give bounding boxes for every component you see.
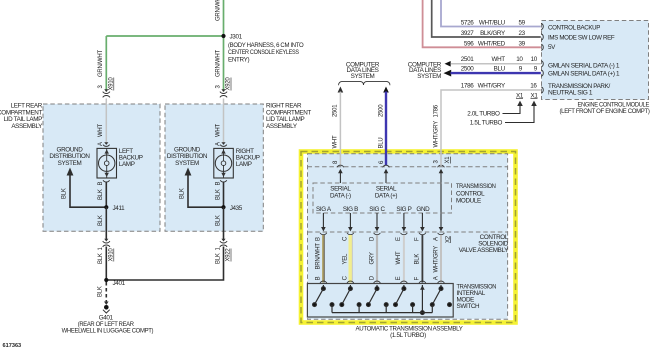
left rear compartment lid tail lamp assembly box (43, 104, 160, 231)
svg-text:LAMP: LAMP (119, 161, 135, 168)
pin arrow 6 (384, 169, 389, 173)
svg-text:SYSTEM: SYSTEM (351, 73, 375, 80)
svg-text:3927: 3927 (461, 30, 474, 37)
wire WHT/RED 596 (423, 0, 541, 47)
arrow left 2500 (444, 70, 452, 77)
wire BLK to ground distribution right (188, 175, 224, 207)
wire pin8 to TCM (339, 172, 341, 183)
svg-text:1.5L TURBO: 1.5L TURBO (470, 120, 503, 127)
transmission control module box (313, 183, 452, 213)
svg-text:GRY: GRY (369, 252, 375, 264)
svg-text:CONTROL BACKUP: CONTROL BACKUP (548, 24, 600, 31)
ground distribution arrow left (67, 168, 74, 176)
left backup lamp (97, 148, 117, 178)
svg-text:BLK: BLK (216, 253, 222, 264)
ECM pin arc row5 (541, 70, 543, 76)
wire WHT/BLU 5726 (441, 0, 541, 27)
wire BLK/GRY 3927 (432, 0, 541, 37)
svg-text:DATA (+): DATA (+) (375, 193, 398, 200)
wire BLK X910 to J401 (105, 247, 107, 281)
svg-text:DATA (-): DATA (-) (330, 193, 351, 200)
svg-text:F: F (415, 237, 421, 241)
switch B (322, 285, 324, 289)
svg-text:39: 39 (518, 40, 525, 47)
svg-text:5V: 5V (548, 44, 556, 51)
contact 3 (384, 303, 388, 307)
svg-text:SERIAL: SERIAL (330, 185, 351, 192)
svg-text:23: 23 (518, 30, 525, 37)
lamp pin A connector right (221, 142, 225, 145)
wire WHT/GRY 1786 row (441, 90, 541, 166)
pin3 wire arrow at X2 (439, 227, 444, 232)
wire SIG C to solenoid connector (376, 213, 378, 228)
svg-text:BLK: BLK (98, 189, 104, 200)
ECM pin arc row1 (541, 23, 543, 29)
svg-text:X1: X1 (445, 156, 451, 164)
svg-text:X2: X2 (445, 235, 451, 243)
ECM pin arc row4 (541, 61, 543, 67)
svg-text:596: 596 (464, 40, 474, 47)
arrow up BLU 2500 (383, 87, 389, 93)
wire GRY solenoid to mode switch (376, 235, 378, 283)
svg-text:SYSTEM: SYSTEM (175, 160, 199, 167)
pin arrow 8 (338, 169, 343, 173)
wire SIG P to solenoid connector (403, 213, 405, 228)
svg-text:WHT: WHT (396, 251, 402, 264)
wire YEL solenoid to mode switch (348, 235, 352, 283)
svg-text:GMLAN SERIAL DATA (+) 1: GMLAN SERIAL DATA (+) 1 (548, 70, 620, 77)
ground G401 symbol (104, 305, 109, 310)
switch E (403, 285, 405, 289)
svg-text:CENTER CONSOLE KEYLESS: CENTER CONSOLE KEYLESS (228, 49, 299, 56)
svg-text:BRN/WHT: BRN/WHT (316, 243, 322, 270)
ground distribution arrow right (185, 168, 192, 176)
svg-text:2.0L TURBO: 2.0L TURBO (467, 110, 500, 117)
switch C (349, 285, 351, 289)
automatic transmission assembly yellow box (301, 152, 516, 323)
wire GND to solenoid connector (421, 213, 423, 228)
svg-text:X922: X922 (226, 248, 232, 262)
svg-text:SIG B: SIG B (343, 206, 358, 213)
isolated contact (448, 303, 452, 307)
svg-text:X920: X920 (226, 77, 232, 91)
svg-text:WHT/GRY: WHT/GRY (433, 121, 439, 148)
svg-text:A: A (433, 237, 439, 241)
wire pin3 down through TCM to X2 (440, 172, 442, 228)
svg-text:GRN/WHT: GRN/WHT (98, 50, 104, 77)
arrow up WHT 2501 (338, 87, 344, 93)
lamp pin A connector left (104, 142, 108, 145)
wire GRN/WHT right leg J301 to X920 (223, 36, 225, 91)
svg-text:WHT/GRY: WHT/GRY (478, 83, 506, 90)
wire pin6 to TCM (385, 172, 387, 183)
wire BLK right J435 down to X922 (223, 207, 225, 240)
svg-text:BLK: BLK (98, 253, 104, 264)
wire GRN/WHT vertical from top to J301 (223, 0, 225, 36)
svg-text:10: 10 (516, 56, 523, 63)
contact 2 (357, 303, 361, 307)
svg-text:(LEFT FRONT OF ENGINE COMPT): (LEFT FRONT OF ENGINE COMPT) (560, 108, 650, 115)
ECM pin arc row3 (541, 44, 543, 50)
wire GRN/WHT left leg down to X910 (105, 36, 107, 91)
wire BLK left J411 down to X910 bottom (105, 207, 107, 240)
svg-text:617363: 617363 (3, 343, 22, 349)
svg-text:1786: 1786 (461, 83, 474, 90)
svg-text:BLU: BLU (378, 138, 384, 149)
svg-text:BLK: BLK (415, 254, 421, 265)
svg-text:ENTRY): ENTRY) (228, 56, 249, 63)
svg-text:10: 10 (531, 56, 538, 63)
svg-text:2501: 2501 (461, 56, 474, 63)
pin F straight wire (421, 285, 423, 313)
svg-text:WHT/BLU: WHT/BLU (479, 20, 506, 27)
svg-text:16: 16 (530, 83, 537, 90)
svg-text:BLK: BLK (98, 286, 104, 297)
mode switch internals (313, 285, 452, 315)
svg-text:SIG A: SIG A (316, 206, 332, 213)
connector X910 inline symbol (104, 89, 108, 92)
common bus (332, 312, 432, 314)
svg-text:X910: X910 (109, 248, 115, 262)
svg-text:X1: X1 (530, 92, 538, 99)
wire BLK right lamp to J435 (223, 182, 225, 208)
svg-text:BLK: BLK (62, 188, 68, 199)
contact 1 (330, 303, 334, 307)
svg-text:GMLAN SERIAL DATA (-) 1: GMLAN SERIAL DATA (-) 1 (548, 63, 620, 70)
svg-text:E: E (396, 237, 402, 241)
svg-text:5726: 5726 (461, 20, 474, 27)
svg-text:1786: 1786 (433, 104, 439, 117)
svg-text:J435: J435 (230, 205, 243, 212)
svg-text:E: E (396, 276, 402, 280)
svg-text:WHT: WHT (492, 56, 506, 63)
svg-text:YEL: YEL (343, 253, 349, 265)
svg-text:VALVE ASSEMBLY: VALVE ASSEMBLY (459, 247, 509, 254)
svg-text:SYSTEM: SYSTEM (58, 160, 82, 167)
pin arc 8 (337, 165, 344, 167)
svg-text:GRN/WHT: GRN/WHT (216, 0, 222, 21)
junction J401 (104, 278, 108, 282)
wire WHT 2501 vertical (339, 92, 341, 166)
svg-text:GRN/WHT: GRN/WHT (216, 50, 222, 77)
wire SIG B to solenoid connector (349, 213, 351, 228)
svg-text:MODULE: MODULE (456, 198, 481, 205)
arrow left 2501 (445, 61, 451, 67)
svg-text:BLK: BLK (216, 189, 222, 200)
control solenoid valve assembly dashed line (308, 231, 508, 233)
wire BLU 2500 vertical (385, 92, 387, 166)
svg-text:WHT: WHT (216, 124, 222, 137)
svg-text:BLK: BLK (216, 215, 222, 226)
transmission inner assembly box (308, 154, 508, 319)
ground arrowhead (104, 302, 109, 306)
svg-text:X1: X1 (516, 92, 524, 99)
svg-text:J401: J401 (113, 280, 126, 287)
svg-text:NEUTRAL SIG 1: NEUTRAL SIG 1 (548, 90, 593, 97)
wire BLU 2500 row (451, 72, 541, 74)
wire WHT left into lamp A (105, 99, 107, 143)
svg-text:2501: 2501 (333, 104, 339, 117)
svg-text:TRANSMISSION: TRANSMISSION (456, 183, 496, 190)
svg-text:SYSTEM: SYSTEM (417, 73, 441, 80)
svg-text:59: 59 (518, 20, 525, 27)
mode switch pin arcs and arrows (320, 281, 444, 290)
junction J411 (104, 205, 108, 209)
wire WHT right into lamp A (223, 99, 225, 143)
svg-text:J301: J301 (230, 34, 243, 41)
svg-text:ASSEMBLY: ASSEMBLY (266, 123, 298, 130)
svg-text:F: F (415, 276, 421, 280)
svg-text:BLU: BLU (494, 65, 506, 72)
pin arc 3 (438, 165, 445, 167)
svg-text:SWITCH: SWITCH (457, 303, 481, 310)
pin arrow 3 (439, 169, 444, 173)
connector X910 bottom symbol (104, 239, 108, 242)
wire WHT solenoid to mode switch (403, 235, 405, 283)
svg-text:2500: 2500 (378, 104, 384, 117)
svg-text:B: B (316, 237, 322, 241)
svg-text:SIG C: SIG C (369, 206, 385, 213)
svg-text:WHT: WHT (98, 124, 104, 137)
svg-text:CONTROL: CONTROL (456, 190, 485, 197)
wire BLK left lamp to J411 (105, 182, 107, 208)
svg-text:BLK: BLK (180, 188, 186, 199)
svg-text:J411: J411 (113, 205, 126, 212)
pin arc 6 (383, 165, 390, 167)
lamp pin B connector right (220, 180, 227, 182)
connector X922 symbol (221, 239, 225, 242)
svg-text:WHEELWELL IN LUGGAGE COMPT): WHEELWELL IN LUGGAGE COMPT) (62, 328, 154, 335)
svg-text:GND: GND (416, 206, 430, 213)
ECM pin arc row2 (541, 34, 543, 40)
svg-text:B: B (216, 182, 222, 186)
svg-text:WHT/RED: WHT/RED (478, 40, 506, 47)
svg-text:A: A (433, 276, 439, 280)
brace under computer data lines system (339, 81, 390, 85)
svg-text:(BODY HARNESS, 6 CM INTO: (BODY HARNESS, 6 CM INTO (228, 42, 304, 49)
junction J301 (221, 34, 225, 38)
wire BLK to ground distribution left (70, 175, 106, 207)
connector X920 inline symbol (221, 89, 225, 92)
switch A (440, 285, 442, 289)
svg-text:B: B (316, 276, 322, 280)
svg-text:IMS MODE SW LOW REF: IMS MODE SW LOW REF (548, 35, 615, 42)
wire GRN/WHT horizontal J301 branch (106, 35, 223, 37)
svg-text:X910: X910 (109, 77, 115, 91)
wire BRN/WHT solenoid to mode switch (322, 235, 325, 283)
lamp pin B connector left (103, 180, 110, 182)
junction J435 (221, 205, 225, 209)
right backup lamp (214, 148, 234, 178)
svg-text:LAMP: LAMP (236, 161, 252, 168)
engine control module box (542, 21, 649, 100)
wire BLK dashed J401 to G401 (105, 282, 107, 302)
svg-text:WHT/GRY: WHT/GRY (433, 246, 439, 273)
svg-text:2500: 2500 (461, 65, 474, 72)
wire WHT/GRY X2 to mode switch (440, 235, 442, 283)
transmission internal mode switch box (307, 284, 453, 318)
wire BLK X922 down and left to J401 (106, 247, 223, 281)
svg-text:BLK/GRY: BLK/GRY (480, 30, 506, 37)
svg-text:SIG P: SIG P (396, 206, 411, 213)
svg-text:WHT: WHT (333, 135, 339, 148)
svg-text:BLK: BLK (98, 215, 104, 226)
wire BLK solenoid to mode switch (421, 235, 423, 283)
svg-text:ASSEMBLY: ASSEMBLY (11, 123, 43, 130)
ECM pin arc row6 (541, 87, 543, 93)
svg-text:(1.5L TURBO): (1.5L TURBO) (390, 332, 426, 339)
svg-text:SERIAL: SERIAL (376, 185, 397, 192)
wire WHT 2501 row (451, 63, 541, 65)
right rear compartment lid tail lamp assembly box (165, 104, 263, 231)
switch D (376, 285, 378, 289)
svg-text:B: B (98, 182, 104, 186)
wire SIG A to solenoid connector (322, 213, 324, 228)
contact 4 (411, 303, 415, 307)
